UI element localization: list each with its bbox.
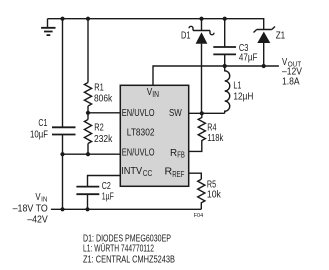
svg-text:F04: F04 xyxy=(194,213,203,219)
zener Z1 xyxy=(254,27,286,67)
wire R2 bottom xyxy=(87,144,89,155)
svg-text:SW: SW xyxy=(169,108,182,119)
node junction C3/L1/VOUT xyxy=(223,64,227,68)
wire EN/UVLO upper xyxy=(88,112,121,114)
wire C1 bottom to VIN rail xyxy=(62,135,64,210)
node junction C2/VIN rail xyxy=(85,207,89,211)
node junction R2-bottom xyxy=(86,152,90,156)
IC U1 LT8302 body xyxy=(120,85,188,186)
wire SW to L1 xyxy=(189,112,225,114)
svg-text:–42V: –42V xyxy=(27,215,48,226)
svg-text:R1: R1 xyxy=(94,83,104,94)
svg-text:EN/UVLO: EN/UVLO xyxy=(122,148,155,159)
node junction D1-cathode xyxy=(199,17,203,21)
svg-text:R5: R5 xyxy=(207,179,217,190)
resistor R4 xyxy=(189,113,224,151)
svg-text:1.8A: 1.8A xyxy=(282,77,300,88)
svg-text:10k: 10k xyxy=(207,190,222,201)
svg-text:118k: 118k xyxy=(207,133,224,144)
wire D1 anode to SW xyxy=(201,19,203,114)
wire VIN bottom rail xyxy=(51,208,201,210)
node junction Z1/VOUT xyxy=(262,64,266,68)
svg-text:12µH: 12µH xyxy=(233,92,253,103)
label VOUT xyxy=(282,57,302,88)
capacitor C2 xyxy=(76,181,113,203)
capacitor C3 xyxy=(213,19,257,66)
svg-text:R4: R4 xyxy=(207,123,217,134)
svg-text:L1: L1 xyxy=(233,81,241,92)
node junction C1/VIN rail xyxy=(60,207,64,211)
resistor R5 xyxy=(198,179,222,209)
svg-text:C2: C2 xyxy=(102,181,111,192)
svg-text:EN/UVLO: EN/UVLO xyxy=(122,108,155,119)
wire top rail GND xyxy=(48,19,264,30)
ground xyxy=(41,19,55,35)
wire EN/UVLO lower xyxy=(63,153,121,155)
wire RREF to R5 xyxy=(189,173,202,179)
wire VIN pin riser and VOUT rail xyxy=(153,66,279,85)
svg-text:L1: WÜRTH 744770112: L1: WÜRTH 744770112 xyxy=(83,243,154,255)
svg-text:Z1: CENTRAL CMHZ5243B: Z1: CENTRAL CMHZ5243B xyxy=(83,255,175,266)
wire C2 to VIN rail xyxy=(87,194,89,209)
resistor R2 xyxy=(84,120,113,146)
wire C1 branch top xyxy=(62,19,64,128)
wire R1 to node xyxy=(87,106,89,120)
diode D1 schottky xyxy=(181,26,214,44)
svg-text:R2: R2 xyxy=(94,123,104,134)
svg-text:Z1: Z1 xyxy=(276,30,286,41)
svg-text:1µF: 1µF xyxy=(102,192,114,203)
svg-text:LT8302: LT8302 xyxy=(127,127,155,138)
node junction SW/D1/R4 xyxy=(200,111,204,115)
node junction R1-top xyxy=(86,17,90,21)
svg-text:232k: 232k xyxy=(94,134,113,145)
svg-text:10µF: 10µF xyxy=(30,130,48,141)
label VIN input xyxy=(13,192,48,226)
svg-text:D1: D1 xyxy=(181,31,191,42)
node junction C3-top xyxy=(223,17,227,21)
svg-text:47µF: 47µF xyxy=(239,52,258,63)
svg-text:C1: C1 xyxy=(38,118,47,129)
node junction C1-top xyxy=(60,17,64,21)
inductor L1 xyxy=(225,66,254,113)
resistor R1 xyxy=(84,83,113,107)
svg-text:806k: 806k xyxy=(94,93,113,104)
capacitor C1 xyxy=(30,118,76,141)
node junction R1/R2/EN xyxy=(86,111,90,115)
wire R1 branch top xyxy=(87,19,89,83)
wire INTVCC to C2 xyxy=(88,176,121,187)
svg-text:RFB: RFB xyxy=(170,148,185,160)
svg-text:VIN: VIN xyxy=(35,192,47,204)
node junction C1-line EN xyxy=(60,152,64,156)
svg-text:–18V TO: –18V TO xyxy=(13,204,48,215)
